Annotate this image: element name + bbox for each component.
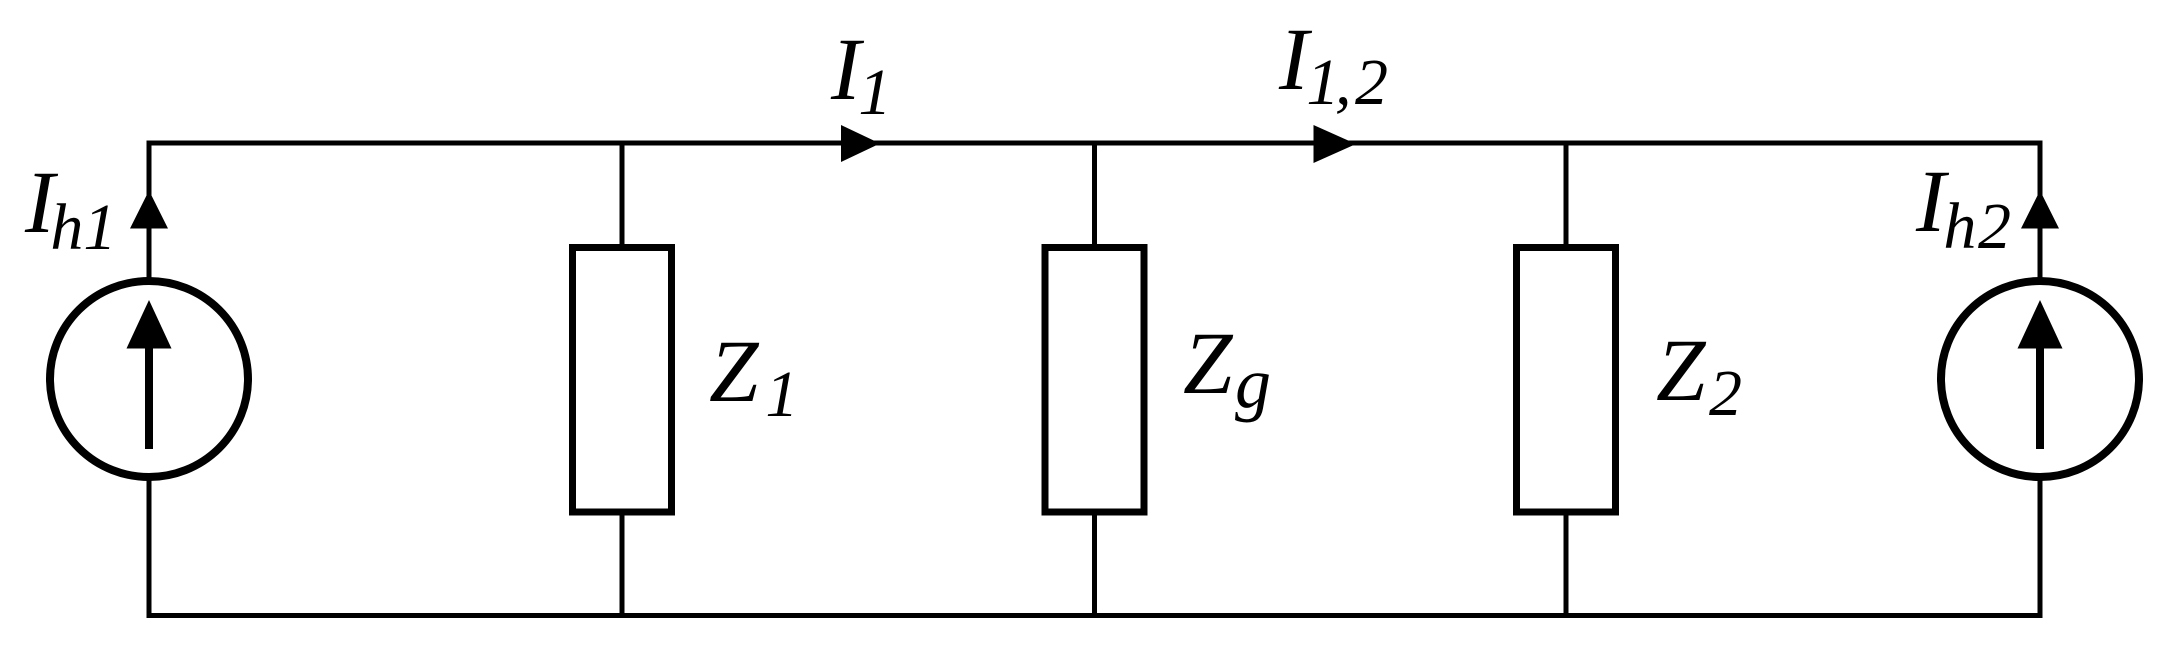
arrowhead Ih1 on left branch wire [130, 191, 168, 229]
impedance Zg (rectangle) [1045, 248, 1144, 513]
label Zg [1183, 315, 1271, 423]
wire bottom return bus [149, 477, 2040, 616]
arrowhead current I1 on top bus [841, 125, 880, 162]
impedance Z1 (rectangle) [573, 248, 672, 513]
label I1,2 [1278, 11, 1388, 119]
label Z2 [1656, 322, 1742, 430]
svg-text:h: h [50, 191, 83, 264]
wire Z2 branch top stub [1564, 143, 1569, 250]
current source Ih1 (circle symbol) [50, 281, 248, 477]
svg-text:2: 2 [1709, 357, 1742, 430]
svg-text:2: 2 [1978, 190, 2011, 263]
svg-text:,: , [1335, 46, 1352, 119]
svg-text:Z: Z [1656, 322, 1707, 420]
label I1 [830, 21, 891, 129]
svg-text:Z: Z [1183, 315, 1234, 413]
wire Zg branch bottom stub [1092, 510, 1097, 616]
wire Z1 branch bottom stub [620, 510, 625, 616]
current source Ih2 internal arrow [2018, 300, 2063, 449]
wire Z1 branch top stub [620, 143, 625, 250]
wire Zg branch top stub [1092, 143, 1097, 250]
svg-text:1: 1 [83, 191, 116, 264]
svg-text:1: 1 [765, 358, 798, 431]
arrowhead Ih2 on right branch wire [2021, 191, 2059, 229]
svg-text:Z: Z [709, 323, 760, 421]
label Z1 [709, 323, 798, 431]
svg-text:h: h [1943, 190, 1976, 263]
svg-text:2: 2 [1355, 46, 1388, 119]
svg-text:g: g [1235, 343, 1271, 423]
wire top bus (node 1 to node 2 rail with corner drops) [149, 143, 2040, 284]
arrowhead current I1,2 on top bus [1314, 125, 1357, 163]
wire Z2 branch bottom stub [1564, 510, 1569, 616]
current source Ih1 internal arrow [127, 300, 172, 449]
impedance Z2 (rectangle) [1517, 248, 1616, 513]
label Ih1 [24, 154, 116, 264]
current source Ih2 (circle symbol) [1941, 281, 2139, 477]
svg-text:1: 1 [858, 56, 891, 129]
label Ih2 [1915, 153, 2011, 263]
